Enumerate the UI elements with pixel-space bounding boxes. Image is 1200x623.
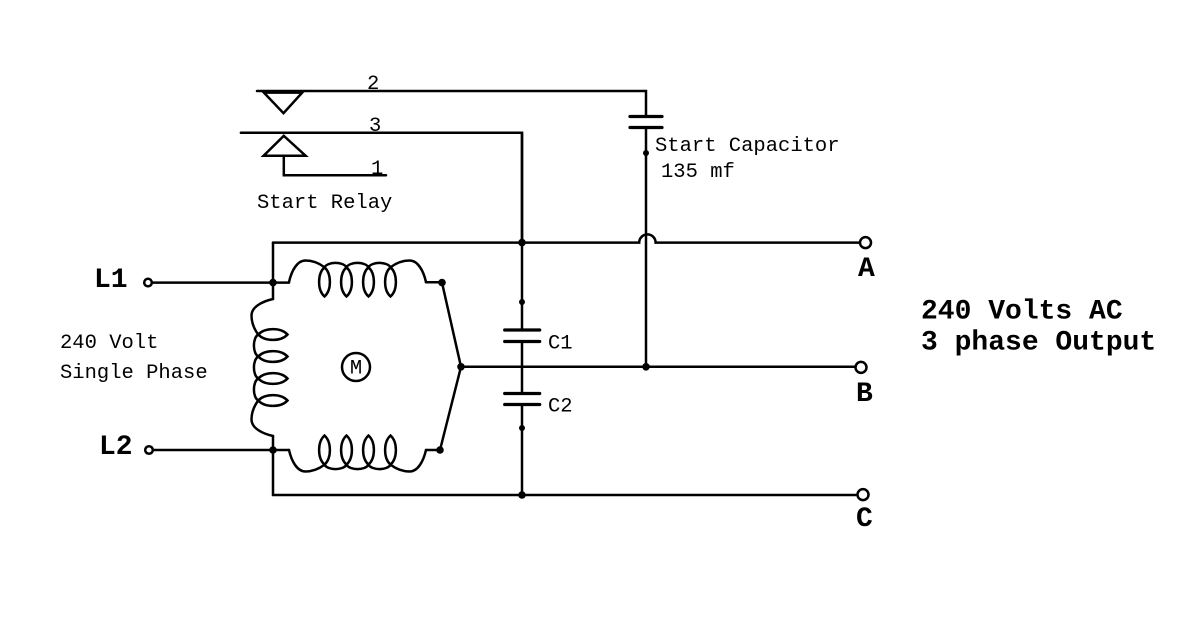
svg-text:3 phase Output: 3 phase Output [921,328,1156,359]
wire L2 to motor [153,449,289,452]
wire relay contact 2 to start capacitor [257,91,646,115]
pin dot above C1 [519,299,525,305]
terminal C [858,489,869,500]
wire start capacitor to node B [645,128,648,368]
node bottom right of winding [436,446,444,454]
motor winding bottom [289,436,426,472]
node junction A-line / relay3 wire [518,239,526,247]
svg-text:L1: L1 [94,265,128,296]
wire top winding to node [426,281,442,284]
node top right of winding [438,279,446,287]
terminal B [856,362,867,373]
svg-text:B: B [856,379,873,410]
capacitor C2 plates [505,394,540,405]
svg-text:240 Volt: 240 Volt [60,332,158,355]
wire diagonal bottom to mid node [440,367,461,450]
node mid motor output [457,363,465,371]
node junction B-line / start capacitor [642,363,650,371]
node L1 junction [269,279,277,287]
motor winding left [252,299,288,436]
pin dot below C2 [519,425,525,431]
wire output A with hop over capacitor wire [273,234,860,242]
node L2 junction [269,446,277,454]
wire motor frame left top [272,243,275,283]
svg-text:Single Phase: Single Phase [60,362,208,385]
pin dot start capacitor [643,150,649,156]
capacitor C1 plates [505,330,540,342]
svg-text:C2: C2 [548,396,573,419]
wire relay common 1 [284,156,386,176]
relay contact 2 triangle [264,93,302,114]
capacitor start cap plates [630,117,662,128]
svg-text:135 mf: 135 mf [661,161,735,184]
svg-text:L2: L2 [99,432,133,463]
wire bottom winding to node [426,449,440,452]
svg-text:Start Capacitor: Start Capacitor [655,135,840,158]
wire diagonal top to mid node [442,283,461,367]
relay contact 3 triangle [264,136,306,156]
svg-text:C1: C1 [548,333,573,356]
wire C1 C2 column [521,133,524,495]
svg-text:1: 1 [371,158,383,181]
terminal L1 [144,279,152,287]
motor winding top [289,261,426,297]
svg-text:Start Relay: Start Relay [257,192,392,215]
wire relay contact 3 [241,133,522,242]
terminal A [860,237,871,248]
wire L1 to motor [152,281,289,284]
svg-text:240 Volts AC: 240 Volts AC [921,297,1123,328]
wire output B [461,366,856,369]
wire output C [273,494,858,497]
terminal L2 [145,446,153,454]
motor circle M [342,353,370,381]
svg-text:3: 3 [369,115,381,138]
svg-text:C: C [856,504,873,535]
svg-text:2: 2 [367,73,379,96]
wire motor frame left bottom [272,450,275,495]
svg-text:M: M [350,358,362,381]
node junction C-line / C2 wire [518,491,526,499]
svg-text:A: A [858,254,875,285]
wire left winding stubs [272,283,275,450]
